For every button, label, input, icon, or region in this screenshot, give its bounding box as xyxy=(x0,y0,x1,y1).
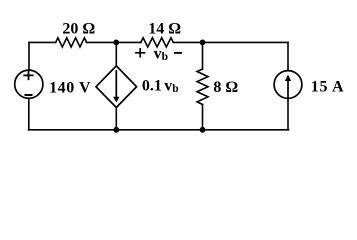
dependent source arrow xyxy=(115,71,117,97)
wire right branch bottom xyxy=(287,99,289,130)
wire top rail middle segment xyxy=(87,41,141,43)
voltage source Vs 140V circle xyxy=(15,70,43,98)
svg-text:b: b xyxy=(172,83,178,95)
wire bottom rail xyxy=(29,129,289,131)
svg-text:14 Ω: 14 Ω xyxy=(148,21,181,38)
node dot bottom left xyxy=(113,127,119,133)
wire left branch bottom xyxy=(28,98,30,130)
svg-text:8 Ω: 8 Ω xyxy=(213,79,238,96)
wire dependent source branch top xyxy=(115,42,117,66)
polarity minus for vb xyxy=(175,52,181,54)
wire 8ohm branch top xyxy=(202,42,204,69)
svg-text:20 Ω: 20 Ω xyxy=(62,21,95,38)
current source arrow xyxy=(287,80,289,97)
wire left branch top xyxy=(28,42,30,69)
voltage source plus sign xyxy=(24,72,32,80)
svg-text:140 V: 140 V xyxy=(49,79,91,96)
svg-text:v: v xyxy=(164,78,172,95)
polarity plus for vb xyxy=(136,49,145,57)
node dot bottom right xyxy=(200,127,206,133)
resistor 8ohm zigzag xyxy=(197,69,208,104)
svg-text:0.1: 0.1 xyxy=(142,78,162,95)
node dot top right xyxy=(200,40,206,46)
resistor 20ohm zigzag xyxy=(56,38,87,47)
resistor 14ohm zigzag xyxy=(141,38,174,47)
wire dependent source branch bottom xyxy=(115,108,117,130)
svg-text:v: v xyxy=(154,46,162,63)
svg-text:15 A: 15 A xyxy=(311,78,344,95)
svg-text:b: b xyxy=(162,51,168,63)
voltage source minus sign xyxy=(26,94,32,96)
wire top rail left segment xyxy=(29,41,56,43)
wire 8ohm branch bottom xyxy=(202,104,204,129)
dependent current source diamond xyxy=(96,66,137,108)
node dot top left xyxy=(113,40,119,46)
wire right branch top xyxy=(287,42,289,70)
current source 15A circle xyxy=(274,71,302,99)
wire top rail right segment xyxy=(173,41,288,43)
